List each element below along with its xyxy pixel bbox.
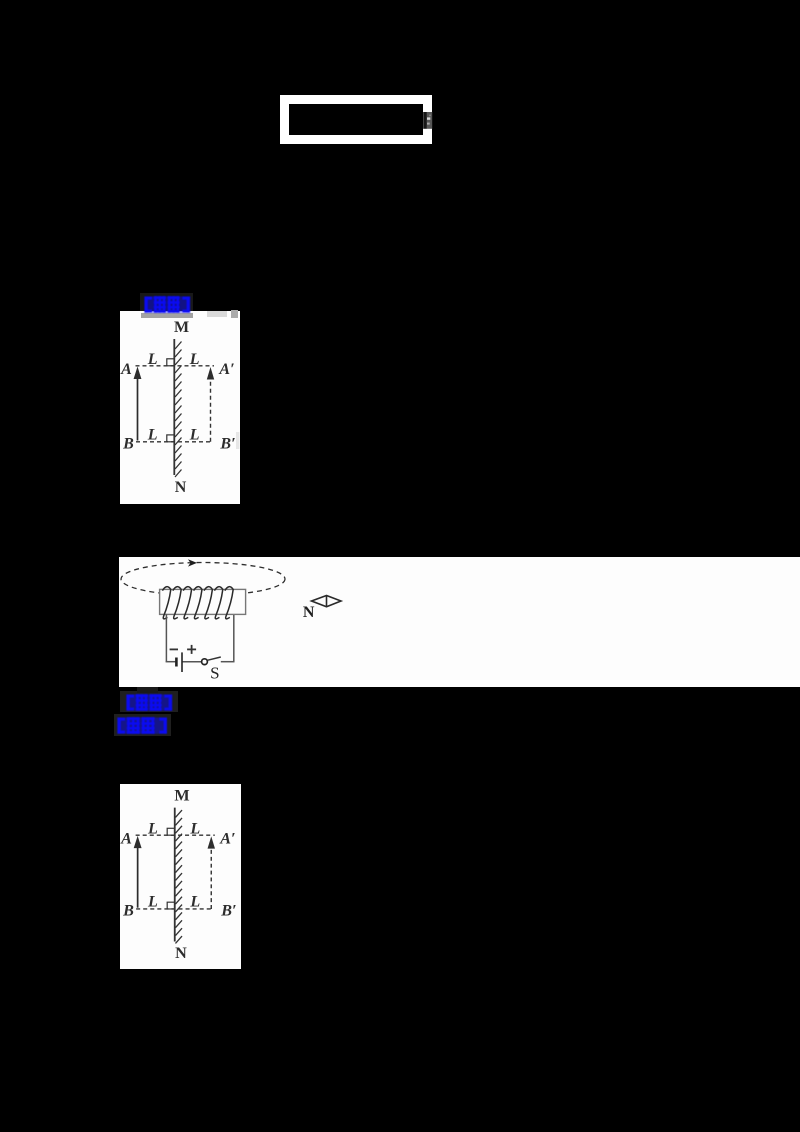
svg-text:L: L [147,821,158,838]
image arrowhead [207,367,214,380]
mirror line MN [173,339,175,475]
image arrowhead [208,836,215,848]
coil body rectangle [160,589,246,614]
svg-text:A′: A′ [218,361,234,378]
solenoid figure [119,557,800,687]
dark bump above blue label 2 [137,687,158,693]
svg-text:B: B [122,436,134,453]
svg-text:M: M [174,319,189,336]
char blob 1 [136,694,148,711]
solid object arrow shaft AB [137,846,139,908]
svg-text:L: L [147,427,158,444]
bottom wire left [166,661,177,663]
switch lever [207,657,221,660]
compass needle diamond [312,596,342,607]
dashed line A to A' [136,365,215,367]
char blob 2 [142,717,155,734]
dark slab behind blue label 3 [114,714,171,736]
dashed line B to B' [136,908,212,910]
title overflow glyph on right border [420,109,436,133]
circuit wires [166,614,235,661]
dashed image arrow shaft A'B' [210,846,212,909]
dashed field ellipse [121,563,285,596]
svg-text:B′: B′ [219,436,235,453]
dark slab behind blue label 2 [120,691,178,712]
dashed line A to A' [136,834,215,836]
svg-text:B: B [122,903,134,920]
svg-text:L: L [189,894,200,911]
ellipse arrow [188,559,197,566]
char blob 2 [150,694,162,711]
faint artifact strip right edge [236,432,239,449]
object arrowhead [134,836,142,848]
svg-text:N: N [175,479,187,496]
dashed line B to B' [136,441,211,443]
bracket close [169,695,172,711]
minus sign [170,648,178,650]
bracket open [145,297,148,313]
bracket open [118,718,121,734]
wire switch to right [221,661,235,663]
mirror hatching [175,342,182,478]
right angle mark bottom [167,435,174,442]
char blob 2 [168,296,180,313]
coil windings [162,587,233,619]
mirror hatching [175,810,182,943]
mirror figure 2 [120,784,241,969]
svg-text:N: N [175,945,187,962]
svg-text:L: L [189,821,200,838]
svg-text:L: L [147,894,158,911]
bracket close [187,297,190,313]
svg-text:M: M [174,788,189,805]
blue label 2 (【答案】 blob) [125,693,175,713]
svg-text:B′: B′ [220,903,236,920]
solid object arrow shaft AB [137,377,139,441]
battery negative plate [175,658,178,667]
gray smudge 2 [231,310,238,318]
switch pivot circle [202,659,208,665]
dark slab behind blue label 1 [140,293,193,311]
blue label 3 (【解析】 blob) [116,716,170,736]
object arrowhead [134,367,142,380]
left wire [165,614,167,661]
char blob 1 [127,717,140,734]
right angle mark bottom [167,902,174,909]
plus sign [187,645,196,654]
right angle mark top [167,828,174,835]
wire battery to switch [182,661,202,663]
svg-text:A: A [120,361,132,378]
mirror line MN [174,808,176,942]
svg-text:N: N [303,604,315,621]
blue label 1 (【解析】 blob) [143,295,193,315]
svg-text:S: S [210,664,219,683]
svg-text:L: L [189,427,200,444]
svg-text:A′: A′ [219,831,235,848]
bracket open [127,695,130,711]
gray smudge 1 [207,311,227,317]
svg-text:L: L [147,351,158,368]
battery positive plate [181,652,183,672]
dashed image arrow shaft A'B' [210,377,212,442]
char blob 1 [154,296,166,313]
gray band under blue label 1 [141,313,193,319]
right wire [233,615,235,662]
svg-text:L: L [189,351,200,368]
bracket close [164,718,167,734]
svg-text:A: A [120,831,132,848]
mirror figure 1 [120,311,240,504]
title box (white frame, black interior) [280,95,432,144]
right angle mark top [167,359,174,366]
